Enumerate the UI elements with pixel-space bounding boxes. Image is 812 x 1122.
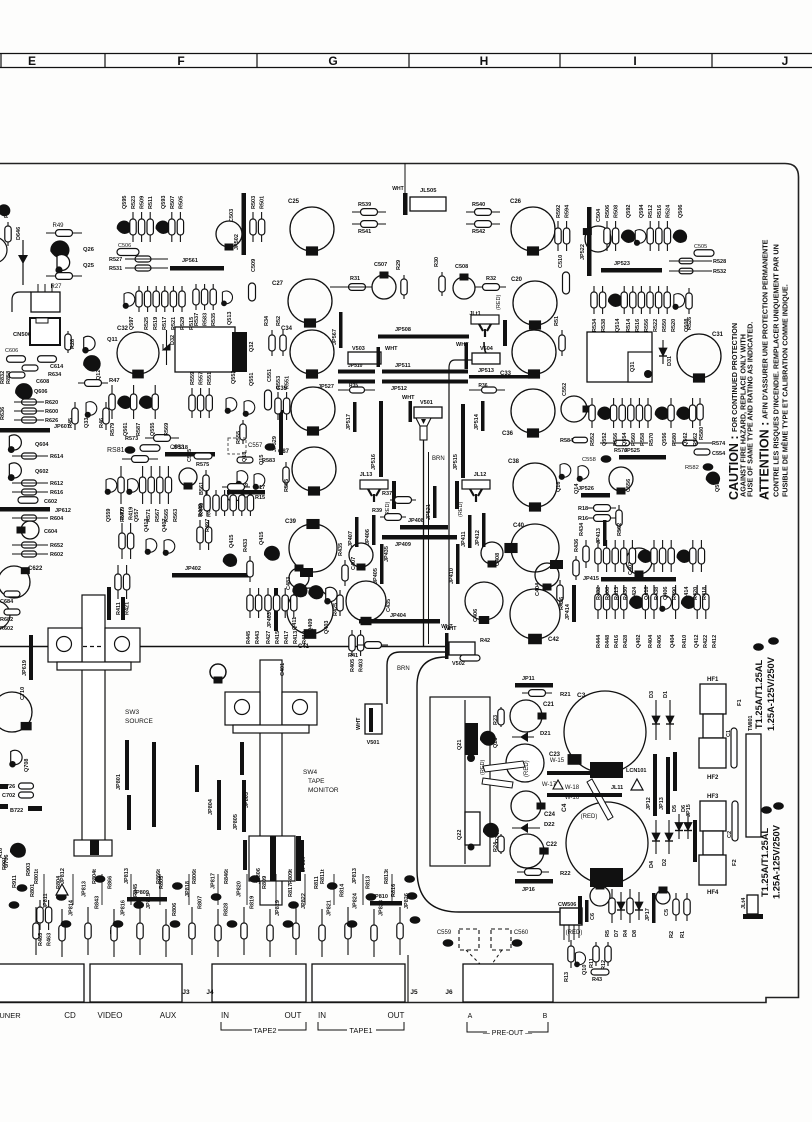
- svg-text:HF4: HF4: [707, 890, 719, 896]
- wire loop inner line: [464, 700, 466, 864]
- badge IB: [703, 463, 714, 471]
- svg-text:I: I: [633, 54, 636, 68]
- power transistor Q32: [175, 327, 235, 372]
- capacitor C35: [291, 387, 335, 436]
- resistor R422: [694, 585, 700, 619]
- svg-text:Q506: Q506: [678, 205, 684, 218]
- resistor R37: [390, 497, 416, 504]
- capacitor C555: [179, 468, 197, 490]
- svg-text:UNER: UNER: [0, 1011, 21, 1020]
- svg-text:IN: IN: [221, 1011, 229, 1020]
- svg-text:R804t: R804t: [92, 869, 98, 884]
- resistor R36: [469, 389, 505, 391]
- diode: [635, 892, 643, 920]
- jumper JP512: [382, 380, 468, 384]
- svg-text:JP410: JP410: [449, 568, 455, 584]
- svg-text:Q551: Q551: [249, 373, 255, 386]
- r652 r602 ovals: [22, 542, 37, 548]
- resistor R511: [147, 212, 153, 242]
- resistor R505: [177, 212, 183, 242]
- resistor R532: [679, 268, 693, 274]
- svg-text:Q32: Q32: [249, 342, 255, 352]
- connector block video/aux: [90, 964, 182, 1002]
- resistor: [397, 907, 403, 955]
- svg-text:(RED): (RED): [496, 295, 502, 310]
- svg-text:R524: R524: [665, 204, 671, 218]
- badge IB: [288, 901, 299, 909]
- capacitor C40: [504, 524, 559, 572]
- svg-text:R31: R31: [350, 276, 360, 282]
- svg-text:JP561: JP561: [182, 258, 198, 264]
- resistor: [137, 907, 143, 955]
- svg-text:Q12: Q12: [96, 370, 102, 380]
- svg-text:R2: R2: [669, 931, 675, 938]
- resistor R497: [204, 490, 210, 516]
- svg-text:R433: R433: [243, 539, 249, 552]
- jumper JP810: [370, 901, 402, 906]
- svg-text:JL12: JL12: [474, 472, 487, 478]
- resistor R552: [589, 398, 595, 428]
- svg-text:R562: R562: [617, 523, 623, 536]
- svg-text:WHT: WHT: [402, 395, 415, 401]
- svg-text:R556: R556: [613, 433, 619, 446]
- svg-text:R17: R17: [255, 485, 265, 491]
- fuse holder HF3-HF4 neck: [703, 831, 723, 855]
- svg-text:R565: R565: [164, 509, 170, 522]
- svg-text:R584: R584: [560, 438, 574, 444]
- jumper JP403: [274, 588, 278, 631]
- resistor R531: [135, 265, 151, 271]
- svg-text:OUT: OUT: [285, 1011, 302, 1020]
- jumper JP410: [456, 544, 460, 584]
- svg-text:R36: R36: [478, 383, 487, 389]
- svg-text:R45: R45: [68, 418, 74, 428]
- resistor R419b: [205, 520, 211, 550]
- svg-text:JLt4: JLt4: [741, 897, 747, 909]
- svg-text:TAPE1: TAPE1: [349, 1026, 372, 1035]
- svg-text:JP815: JP815: [146, 893, 152, 909]
- svg-text:R555: R555: [236, 431, 242, 444]
- svg-text:C684: C684: [0, 599, 14, 605]
- svg-text:R11: R11: [589, 958, 595, 968]
- jumper: [603, 520, 607, 546]
- svg-text:JP435: JP435: [384, 546, 390, 562]
- capacitor C504: [583, 226, 611, 252]
- svg-text:D5: D5: [672, 805, 678, 812]
- connector V504: [472, 353, 500, 364]
- connector V503: [348, 352, 381, 364]
- svg-text:BK: BK: [775, 804, 782, 809]
- svg-text:R507: R507: [170, 196, 176, 209]
- svg-text:R404: R404: [648, 634, 654, 648]
- svg-text:F: F: [177, 54, 184, 68]
- svg-text:WHT: WHT: [385, 346, 398, 352]
- resistor R559: [189, 388, 195, 418]
- svg-text:C553: C553: [170, 445, 185, 451]
- svg-text:D31: D31: [667, 356, 673, 366]
- diode D22: [520, 823, 528, 833]
- jumper JP407: [355, 517, 359, 547]
- svg-text:JP413: JP413: [596, 528, 602, 544]
- resistor R416: [612, 585, 618, 619]
- transistor Q416: [638, 550, 652, 563]
- svg-text:R52: R52: [276, 316, 282, 326]
- resistor R423: [213, 490, 219, 516]
- resistor R592: [555, 221, 561, 251]
- svg-text:JP517: JP517: [346, 414, 352, 430]
- svg-text:BRN: BRN: [397, 666, 410, 672]
- svg-text:C27: C27: [272, 281, 284, 287]
- transistor Q404: [659, 596, 671, 612]
- svg-text:Q404: Q404: [670, 634, 676, 648]
- svg-text:JP803: JP803: [244, 792, 250, 808]
- badge BK: [249, 875, 260, 883]
- svg-text:JP411: JP411: [461, 531, 467, 547]
- resistor R556: [638, 286, 644, 314]
- svg-text:R27: R27: [50, 284, 62, 290]
- svg-text:BRN: BRN: [432, 456, 445, 462]
- svg-text:IB: IB: [128, 448, 133, 453]
- svg-text:R813t: R813t: [384, 869, 390, 884]
- fuse holder HF1: [700, 684, 726, 714]
- svg-text:D32: D32: [170, 335, 176, 345]
- badge IB: [265, 443, 276, 451]
- svg-text:R438: R438: [654, 587, 660, 600]
- jumper JP15: [693, 820, 697, 862]
- jumper: [503, 320, 507, 346]
- resistor R594: [563, 221, 569, 251]
- resistor R35: [338, 389, 375, 391]
- svg-text:MONITOR: MONITOR: [308, 787, 339, 794]
- transistor Q556: [655, 407, 669, 420]
- badge IB: [17, 884, 28, 892]
- svg-text:D3: D3: [649, 691, 655, 698]
- jumper JP526: [581, 493, 610, 498]
- svg-text:R525: R525: [144, 317, 150, 330]
- capacitor C42: [510, 589, 560, 644]
- svg-text:T1.25A/T1.25AL: T1.25A/T1.25AL: [760, 827, 770, 897]
- resistor R522: [647, 286, 653, 314]
- transistor Q26: [50, 240, 69, 258]
- svg-text:Q14: Q14: [574, 483, 580, 494]
- svg-text:R801: R801: [30, 884, 36, 897]
- svg-text:JL13: JL13: [360, 472, 373, 478]
- transistor Q551: [243, 401, 255, 417]
- svg-text:Q552: Q552: [602, 433, 608, 446]
- capacitor C39: [289, 519, 337, 572]
- svg-text:JP619: JP619: [22, 660, 28, 676]
- svg-text:SW3: SW3: [125, 709, 139, 716]
- svg-text:BK: BK: [285, 922, 292, 927]
- svg-text:IB: IB: [136, 903, 141, 908]
- resistor: [605, 942, 611, 966]
- transistor Q553: [225, 398, 237, 414]
- svg-text:D2: D2: [662, 859, 668, 866]
- svg-text:JP502: JP502: [234, 234, 240, 250]
- svg-text:R569: R569: [164, 423, 170, 436]
- svg-text:JP13: JP13: [659, 797, 665, 810]
- svg-text:C557: C557: [248, 443, 263, 449]
- capacitor C551: [265, 390, 272, 410]
- svg-text:C483: C483: [286, 577, 292, 590]
- svg-text:Q15: Q15: [259, 455, 265, 465]
- svg-text:CW506: CW506: [558, 902, 576, 908]
- connector V502: [449, 642, 475, 655]
- jumper JP561: [170, 266, 224, 271]
- jumper: [590, 868, 623, 887]
- svg-text:BK: BK: [329, 884, 336, 889]
- svg-text:HF3: HF3: [707, 794, 719, 800]
- resistor R410: [672, 585, 678, 619]
- resistor R424: [629, 540, 635, 572]
- resistor R562: [616, 505, 622, 531]
- resistor R580: [697, 398, 703, 426]
- resistor R403: [357, 630, 363, 656]
- transistor Q561: [117, 396, 131, 409]
- resistor: [85, 907, 91, 955]
- resistor R528: [679, 258, 693, 264]
- svg-text:JP820: JP820: [236, 881, 242, 897]
- label RED jl13: [480, 760, 486, 775]
- transistor Q592: [621, 230, 635, 243]
- svg-text:JP521: JP521: [426, 504, 432, 520]
- resistor R433: [247, 556, 253, 582]
- jumper: [465, 723, 478, 755]
- transistor Q24: [483, 823, 499, 838]
- resistor R551: [206, 388, 212, 418]
- resistor R444: [595, 585, 601, 619]
- resistor R571: [139, 466, 145, 504]
- capacitor R43: [591, 969, 609, 975]
- svg-text:JP412: JP412: [475, 530, 481, 546]
- resistor: [498, 834, 504, 854]
- fuse holder HF3: [700, 801, 726, 831]
- svg-text:R32: R32: [486, 276, 496, 282]
- resistor R515: [179, 286, 185, 312]
- svg-text:WHT: WHT: [456, 342, 469, 348]
- jumper: [590, 762, 623, 778]
- badge IB: [366, 893, 377, 901]
- svg-text:R514: R514: [626, 318, 632, 332]
- svg-text:Q21: Q21: [457, 740, 463, 750]
- resistor R558: [636, 398, 642, 428]
- svg-text:R505: R505: [178, 196, 184, 209]
- svg-text:JP814: JP814: [69, 899, 75, 916]
- fuse F1: [737, 698, 743, 706]
- resistor R401: [230, 490, 236, 516]
- svg-text:R594: R594: [565, 204, 571, 218]
- svg-text:RS81: RS81: [107, 447, 125, 454]
- capacitor C554: [694, 449, 710, 455]
- resistor R524: [664, 221, 670, 251]
- svg-text:Q514: Q514: [615, 318, 621, 332]
- svg-text:R809: R809: [262, 876, 268, 889]
- diode D4: [652, 820, 660, 854]
- svg-text:Q31: Q31: [630, 362, 636, 372]
- jumper JP809: [127, 897, 167, 902]
- resistor R516: [630, 286, 636, 314]
- svg-text:JP807: JP807: [301, 856, 307, 872]
- transistor Q31 dot: [644, 370, 652, 378]
- resistor R407: [239, 490, 245, 516]
- svg-text:R527: R527: [109, 257, 122, 263]
- resistor R569: [152, 385, 158, 419]
- resistor R431: [247, 490, 253, 516]
- svg-text:R556: R556: [644, 319, 650, 332]
- svg-text:R858: R858: [6, 371, 12, 384]
- transistor Q16: [559, 464, 571, 480]
- svg-text:R542: R542: [472, 229, 485, 235]
- resistor R41: [358, 642, 388, 649]
- capacitor C510: [563, 272, 570, 294]
- svg-text:J: J: [782, 54, 789, 68]
- connector V501 plug: [416, 418, 431, 426]
- svg-text:JP801: JP801: [116, 774, 122, 790]
- svg-text:R416: R416: [614, 635, 620, 648]
- resistor R427b: [265, 588, 271, 618]
- capacitor C560 dashed: [491, 929, 511, 950]
- svg-text:R430: R430: [623, 587, 629, 600]
- svg-text:AFIN D'ASSURER UNE PROTECTION: AFIN D'ASSURER UNE PROTECTION PERMANENTE: [761, 239, 770, 419]
- capacitor C24: [511, 791, 546, 821]
- svg-text:FUSE OF SAME TYPE AND RATING A: FUSE OF SAME TYPE AND RATING AS INDICATE…: [746, 322, 755, 497]
- svg-text:D8: D8: [632, 930, 638, 937]
- grid ruler band: [0, 54, 812, 68]
- svg-text:JP516: JP516: [371, 454, 377, 470]
- connector block tape2: [212, 964, 306, 1002]
- jumper JP402: [172, 573, 250, 578]
- svg-text:1.25A-125V/250V: 1.25A-125V/250V: [766, 656, 776, 731]
- diode D646: [18, 255, 28, 264]
- svg-text:C26: C26: [510, 199, 522, 205]
- svg-text:Q593: Q593: [161, 196, 167, 209]
- capacitor C20: [513, 281, 557, 330]
- svg-text:Q592: Q592: [626, 205, 632, 218]
- jumper JP513: [469, 375, 530, 379]
- svg-text:R37: R37: [382, 491, 392, 497]
- connector CN506: [30, 318, 60, 345]
- svg-text:Q26: Q26: [83, 247, 95, 253]
- resistor R465: [37, 900, 43, 930]
- resistor R46: [103, 402, 109, 430]
- transistor Q23: [480, 731, 496, 746]
- jumper JP607: [0, 428, 50, 433]
- capacitor C509: [249, 283, 256, 301]
- svg-text:A: A: [468, 1013, 473, 1020]
- svg-text:R811: R811: [314, 876, 320, 889]
- badge IB: [227, 920, 238, 928]
- capacitor C23 RED: [506, 744, 544, 782]
- svg-text:IB: IB: [515, 941, 520, 946]
- svg-text:R413: R413: [614, 587, 620, 600]
- svg-text:HF1: HF1: [707, 677, 719, 683]
- svg-text:R807: R807: [198, 896, 204, 909]
- jumper JP523: [601, 268, 662, 273]
- svg-text:C506: C506: [118, 243, 131, 249]
- resistor: [345, 907, 351, 955]
- svg-text:R901: R901: [2, 857, 8, 870]
- svg-text:R46: R46: [99, 418, 105, 428]
- svg-text:Q23: Q23: [493, 738, 499, 748]
- transistor Q12: [83, 355, 101, 371]
- badge BK: [95, 875, 106, 883]
- svg-text:IB: IB: [604, 457, 609, 462]
- transistor Q10: [574, 952, 585, 967]
- resistor R573: [145, 435, 179, 442]
- svg-text:R634: R634: [48, 372, 62, 378]
- svg-text:R562: R562: [693, 433, 699, 446]
- badge IB: [133, 901, 144, 909]
- svg-text:JP409: JP409: [395, 542, 411, 548]
- diode D5: [675, 814, 683, 839]
- svg-text:BK: BK: [174, 884, 181, 889]
- svg-text:R448: R448: [605, 635, 611, 648]
- jumper JP511: [382, 370, 468, 374]
- svg-text:JP813: JP813: [124, 868, 130, 884]
- svg-text:JP804: JP804: [208, 798, 214, 815]
- svg-text:JP813: JP813: [352, 868, 358, 884]
- jumper: [547, 793, 622, 797]
- svg-text:JP16: JP16: [522, 887, 535, 893]
- jumper jumper: [110, 930, 114, 934]
- svg-text:C408: C408: [495, 553, 501, 566]
- svg-text:WHT: WHT: [356, 717, 362, 730]
- svg-text:R866: R866: [107, 876, 113, 889]
- resistor R538: [599, 286, 605, 314]
- svg-text:R567: R567: [155, 509, 161, 522]
- svg-text:JP514: JP514: [474, 413, 480, 430]
- svg-text:JP824: JP824: [353, 892, 359, 909]
- svg-text:R443: R443: [255, 631, 261, 644]
- jumper JP508: [378, 335, 469, 339]
- jumper: [743, 914, 763, 919]
- badge IB: [113, 920, 124, 928]
- svg-text:R515: R515: [189, 317, 195, 330]
- svg-text:R577: R577: [120, 509, 126, 522]
- svg-text:R534: R534: [592, 318, 598, 332]
- capacitor C507: [372, 272, 396, 300]
- svg-text:R403: R403: [359, 659, 365, 672]
- svg-text:SOURCE: SOURCE: [125, 718, 153, 725]
- resistor R517: [153, 286, 159, 312]
- resistor: [59, 909, 65, 957]
- svg-text:IB: IB: [706, 465, 711, 470]
- svg-text:R42: R42: [480, 638, 490, 644]
- resistor: [215, 909, 221, 957]
- svg-text:C504: C504: [596, 208, 602, 222]
- svg-text:D4: D4: [649, 860, 655, 868]
- svg-text:CN506: CN506: [13, 332, 32, 338]
- svg-text:R30: R30: [434, 257, 440, 267]
- transistor Q506: [673, 230, 687, 243]
- jumper JP807: [300, 840, 304, 872]
- svg-text:R587: R587: [136, 423, 142, 436]
- svg-text:IB: IB: [173, 922, 178, 927]
- resistor R535: [210, 284, 216, 310]
- svg-text:JP406: JP406: [365, 529, 371, 545]
- jumper: [445, 633, 449, 659]
- connector V501 bottom: [365, 704, 382, 734]
- svg-text:C559: C559: [437, 930, 452, 936]
- jumper: [369, 708, 373, 732]
- svg-text:R444: R444: [596, 634, 602, 648]
- resistor Q554: [619, 398, 625, 428]
- svg-text:R497: R497: [205, 519, 211, 532]
- svg-text:R425: R425: [333, 603, 339, 616]
- resistor R30: [439, 272, 445, 296]
- svg-text:R523: R523: [131, 196, 137, 209]
- jumper: [585, 900, 589, 922]
